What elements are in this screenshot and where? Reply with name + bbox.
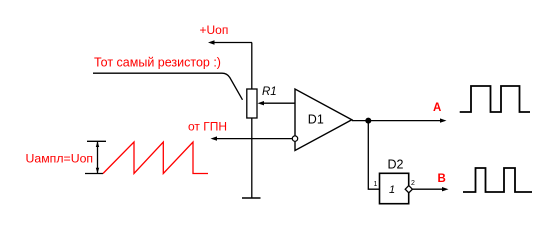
svg-text:Uампл=Uоп: Uампл=Uоп (26, 152, 94, 166)
wiper arrow of R1 (wire to D1 non-inverting input) (258, 101, 296, 105)
svg-text:1: 1 (374, 181, 378, 188)
D2 inversion diamond (405, 186, 412, 193)
svg-text:от ГПН: от ГПН (188, 120, 227, 134)
svg-text:A: A (433, 102, 441, 114)
junction node (365, 118, 371, 124)
sawtooth waveform from GPN (103, 142, 208, 174)
svg-text:+Uоп: +Uоп (200, 23, 229, 37)
wire: leader arrow from +Uop label to supply wire (208, 40, 252, 44)
svg-text:2: 2 (411, 180, 415, 187)
wire: +Uop supply down to R1 top (251, 43, 253, 90)
ground (242, 197, 261, 199)
D1 inverting input bubble (292, 136, 297, 141)
waveform A (square wave, wide high) (460, 86, 530, 112)
waveform B (square wave, narrow high) (463, 168, 532, 192)
wire: D2 output with arrow B (412, 187, 448, 191)
dimension lines Uampl (vertical double arrow with caps) (85, 141, 106, 173)
wire: D1 output with arrow A (352, 118, 447, 122)
svg-text:D2: D2 (388, 158, 404, 172)
wire: junction down to D2 input (368, 121, 379, 190)
wire/arrow: sawtooth input from GPN to D1 inverting bubble (211, 136, 293, 140)
svg-text:1: 1 (389, 184, 395, 196)
svg-text:R1: R1 (262, 86, 277, 98)
inverter D2 box (380, 173, 409, 203)
svg-text:B: B (438, 173, 446, 185)
comparator D1 triangle (295, 89, 352, 151)
svg-text:D1: D1 (308, 113, 324, 127)
leader line from annotation to R1 (93, 73, 243, 100)
resistor R1 (potentiometer body) (247, 89, 257, 118)
svg-text:Тот самый резистор :): Тот самый резистор :) (94, 55, 221, 69)
wire: R1 bottom down to ground (251, 118, 253, 198)
